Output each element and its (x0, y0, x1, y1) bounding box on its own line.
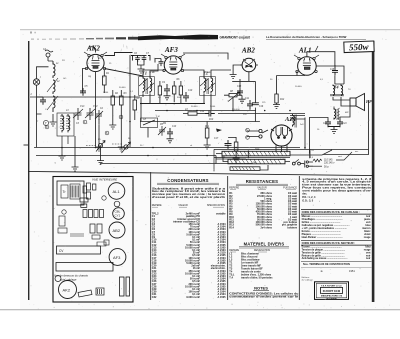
cap C14 (167, 128, 173, 138)
divider schematic/tables (28, 171, 373, 175)
component value labels (30, 48, 350, 159)
tube AF3 (161, 54, 185, 74)
resistances header (229, 186, 297, 189)
svg-text:1 M: 1 M (156, 116, 160, 118)
volume pot (141, 118, 158, 138)
ground R8 (239, 95, 246, 103)
wire right vertical (324, 101, 369, 155)
svg-text:C15: C15 (237, 86, 242, 88)
extra scan noise schematic band (31, 44, 363, 170)
header band ticks (30, 32, 84, 40)
resistor R6 (173, 81, 176, 102)
svg-text:CV2: CV2 (93, 106, 98, 108)
wire speaker return (290, 116, 305, 120)
svg-text:C18: C18 (330, 69, 335, 71)
circled reperes (83, 115, 249, 139)
550W box (344, 41, 374, 53)
chassis long rect L (56, 263, 113, 272)
svg-text:VALEUR: VALEUR (257, 186, 267, 189)
svg-text:cote' cablage: cote' cablage (60, 278, 77, 282)
svg-text:CODE DES COULEURS DU FIL DE CA: CODE DES COULEURS DU FIL DE CABLAGE : (302, 210, 360, 214)
switch contacts power (247, 129, 268, 138)
circled repere 6 (105, 131, 109, 135)
svg-text:5.000: 5.000 (210, 106, 216, 108)
BF transformer T3 (293, 114, 297, 128)
svg-text:PO: PO (62, 60, 65, 62)
svg-text:1951: 1951 (349, 269, 355, 273)
caps C20 C21 (325, 119, 343, 130)
tuning cap CV2 (85, 108, 95, 120)
wire: mid bus (140, 103, 205, 105)
svg-text:St ETIENNE: St ETIENNE (326, 297, 337, 300)
svg-text:Nos. TERMINAUX DE CONSTRUCT: Nos. TERMINAUX DE CONSTRUCTION (303, 262, 350, 266)
cap C16 coupling (252, 103, 259, 105)
resistor Rb under AF3 (179, 81, 182, 103)
power transformer HV winding (222, 151, 290, 156)
svg-text:RESISTANCES: RESISTANCES (246, 179, 278, 184)
svg-text:5.000: 5.000 (103, 92, 109, 94)
trimmer C7 top (138, 62, 145, 68)
ground AB2 left (230, 73, 237, 79)
resistor R3 (120, 90, 124, 113)
dropper resistor (313, 159, 322, 166)
scan speckle noise (23, 30, 391, 309)
svg-text:sont etablis pour les deux gam: sont etablis pour les deux gammes d'on- (302, 189, 371, 192)
right column paragraph (302, 178, 372, 203)
scanned page area (20, 30, 400, 310)
IF transformer T1 (139, 71, 155, 96)
chassis transfo block (57, 181, 84, 205)
svg-text:Substitution: Il peut etre uti: Substitution: Il peut etre utile il y a (152, 187, 226, 190)
condensateurs table rows (152, 213, 226, 299)
arrow mark ps (216, 129, 222, 133)
mains plug (304, 161, 313, 168)
switch S1 circle (33, 67, 48, 147)
svg-text:lieu de remplacer 10 mmF, les: lieu de remplacer 10 mmF, les valeurs la (152, 191, 226, 193)
svg-text:AZ1: AZ1 (284, 116, 297, 123)
power transformer LV winding (228, 159, 285, 164)
chassis tube CBL (113, 208, 125, 220)
field coil (334, 108, 340, 120)
wire T2 connections (183, 70, 232, 110)
template construction line (301, 260, 372, 262)
svg-text:CY1: CY1 (115, 214, 121, 218)
cap C17 tone (225, 140, 232, 149)
cap C8 top (105, 56, 151, 77)
cap C left frame (37, 97, 46, 105)
svg-text:50.000: 50.000 (119, 87, 126, 89)
scan bottom edge (0, 309, 400, 310)
ground R10 (204, 144, 211, 149)
resistor Ra under AF3 (158, 81, 161, 103)
mains switch (292, 159, 304, 165)
wire AL1 plate to T4 (307, 52, 344, 85)
svg-text:NOTES: NOTES (254, 285, 268, 290)
cap C9 under AF3 (164, 84, 170, 95)
svg-text:C13: C13 (172, 126, 177, 128)
wire AB2 detector (183, 53, 255, 122)
svg-text:C12: C12 (200, 111, 205, 113)
svg-text:2e MF: 2e MF (205, 72, 212, 74)
power transformer tert winding (230, 167, 260, 171)
wire AK2 left pin (83, 69, 87, 93)
svg-text:50.000: 50.000 (191, 106, 198, 108)
svg-text:AF3: AF3 (113, 255, 121, 260)
svg-text:AK2: AK2 (63, 287, 71, 292)
circled repere 9 (45, 125, 49, 129)
svg-text:AF3: AF3 (164, 46, 178, 54)
svg-text:R13: R13 (221, 157, 226, 159)
chassis elco bars (120, 277, 130, 296)
svg-text:A 1505: A 1505 (218, 296, 227, 299)
wire bottom right bus (216, 156, 252, 164)
wire: detector bus 2 (218, 113, 305, 115)
chassis gang condenser bar (57, 246, 101, 254)
ground osc (72, 136, 79, 171)
AZ1 pins (276, 145, 287, 152)
wire: AF bus (140, 121, 260, 123)
svg-text:REPERE: REPERE (229, 186, 239, 189)
tube AB2 (240, 58, 258, 72)
svg-text:C21: C21 (343, 123, 348, 125)
oscillator coil L3 (43, 113, 74, 136)
trimmer C13 (158, 126, 166, 136)
column divider 1 (149, 172, 152, 300)
svg-text:AL1: AL1 (298, 47, 311, 55)
svg-text:PUISSANCE: PUISSANCE (283, 186, 297, 189)
svg-text:VALEUR: VALEUR (178, 204, 188, 207)
tube AK2 (84, 52, 107, 72)
wire: top bus AK2-AF3 (105, 53, 133, 56)
wire field to caps (309, 106, 350, 119)
cap C18 (332, 67, 338, 75)
chassis trimmer group B (80, 186, 88, 207)
speaker HP (350, 94, 372, 111)
resistances table rows (229, 192, 297, 229)
resistor R2 (111, 90, 115, 113)
ground left bottom (59, 154, 66, 160)
wire T4 to speaker (333, 97, 350, 106)
ground mid1 (96, 119, 103, 151)
svg-text:9.000 m.mF: 9.000 m.mF (186, 296, 200, 299)
svg-text:AB2: AB2 (113, 228, 121, 233)
svg-text:C20: C20 (323, 123, 328, 125)
svg-text:REPERE: REPERE (152, 204, 162, 207)
wire T1 connections (143, 64, 164, 103)
chassis small rects right of transfo (87, 183, 96, 199)
wire x130 vertical (129, 55, 131, 147)
resistor R12 grid leak (275, 94, 278, 103)
frame tick left (24, 145, 30, 146)
code couleurs cablage header (301, 210, 372, 215)
chassis tube AB2 (109, 222, 125, 238)
svg-text:des.: des. (302, 192, 307, 195)
svg-text:SPECIFICATION: SPECIFICATION (207, 204, 225, 207)
code couleurs secteur rows (302, 246, 372, 261)
frame left border (28, 41, 29, 300)
wave switch SW1 (96, 141, 105, 161)
extra value labels (37, 58, 358, 164)
chassis trimmer group A (83, 210, 104, 218)
svg-text:C17: C17 (214, 138, 219, 140)
chassis small circle b (55, 276, 61, 282)
trimmer C2 (95, 110, 103, 120)
svg-text:AB2: AB2 (241, 47, 255, 55)
wire: bottom bus 1 (34, 147, 300, 149)
wire: detector bus (155, 110, 256, 112)
wire double vertical ps (305, 118, 310, 154)
svg-text:T.S.F. R.FORT et Cie: T.S.F. R.FORT et Cie (321, 284, 343, 287)
svg-text:R.FORT 1040: R.FORT 1040 (323, 289, 341, 293)
resistor R7 hor (183, 112, 205, 115)
svg-text:sect: sect (338, 155, 342, 158)
chassis tube AF3 (109, 249, 126, 266)
notes bold lines (229, 292, 299, 298)
condensateurs table header (152, 204, 225, 207)
column divider 3 (298, 176, 301, 300)
chassis small circle (114, 201, 120, 207)
wire transfo right links (290, 149, 369, 160)
wire LV out (216, 154, 290, 171)
wire AK2 down (95, 72, 97, 147)
svg-text:10.000: 10.000 (295, 86, 302, 88)
svg-text:G.O.: 3, 5: G.O.: 3, 5 (302, 199, 314, 202)
header black bar (138, 35, 218, 41)
editions small text (302, 276, 314, 282)
svg-text:CV1: CV1 (80, 106, 85, 108)
cap C5 (80, 88, 86, 96)
coil L1 antenna (47, 61, 58, 112)
resistor R13 tone (228, 137, 238, 158)
wire antenna top (90, 47, 96, 53)
cap C6 top (131, 56, 147, 62)
column divider 2 (226, 176, 229, 300)
svg-text:montee par les memes en cote ;: montee par les memes en cote ; la tensio… (152, 193, 226, 196)
svg-text:R14: R14 (229, 226, 234, 229)
code couleurs secteur header (301, 241, 372, 245)
wire: bus low partial (100, 163, 216, 165)
svg-text:R10: R10 (209, 119, 214, 121)
wire osc coil to ground (62, 136, 68, 154)
IF transformer T2 (200, 71, 216, 96)
ground C9 (164, 95, 171, 100)
output transformer T4 (330, 85, 344, 96)
transformer frame sides (248, 150, 309, 158)
svg-text:AL1: AL1 (113, 189, 121, 194)
svg-text:550w: 550w (349, 42, 370, 53)
scan top edge (20, 29, 400, 30)
chassis tube AL1 (108, 183, 125, 200)
chassis layout box (53, 177, 133, 303)
svg-text:VUE INTERIEURE: VUE INTERIEURE (92, 178, 118, 182)
svg-text:commutateur d'ondes portent: commutateur d'ondes portent sur le (229, 296, 299, 299)
svg-text:1e MF: 1e MF (149, 72, 156, 74)
svg-text:La Documentation du Radio-Elec: La Documentation du Radio-Electricien - … (266, 35, 347, 39)
materiel divers header (229, 249, 270, 252)
svg-text:R12: R12 (280, 99, 285, 101)
condensateurs intro paragraph (152, 187, 226, 199)
wire: grid bus left (30, 96, 140, 98)
ground C20 (331, 130, 338, 134)
svg-text:C32: C32 (152, 296, 157, 299)
svg-text:Editions: Editions (302, 276, 311, 279)
tuning cap CV1 (73, 108, 83, 120)
svg-text:220 245 v: 220 245 v (324, 162, 335, 165)
chassis tube AK2 (59, 281, 77, 299)
ground top cap (138, 68, 145, 73)
svg-text:2x4 ohms: 2x4 ohms (260, 226, 272, 229)
chassis misc small (58, 196, 109, 246)
ground C14 (167, 138, 174, 143)
ground mid2 (109, 113, 116, 129)
svg-text:noir: noir (366, 257, 371, 260)
resistor R10 ps (205, 122, 209, 145)
svg-text:MATERIEL DIVERS: MATERIEL DIVERS (244, 241, 285, 246)
svg-text:C10: C10 (188, 90, 193, 92)
stamp box (315, 282, 349, 300)
frame right border (372, 41, 375, 302)
switch link dashed (86, 144, 122, 146)
cap pair left of AF3 (155, 59, 164, 67)
cap C10 (183, 92, 189, 102)
svg-text:2x350: 2x350 (280, 159, 287, 161)
svg-text:50 p: 50 p (324, 166, 329, 169)
ground C17 (233, 157, 240, 163)
svg-text:d'essai pour P et M, et de spe: d'essai pour P et M, et de spe'cir plus% (152, 196, 225, 199)
cap C11 (247, 100, 253, 110)
wave switch SW2 (122, 142, 131, 153)
svg-text:Anti-fading ou masse .........: Anti-fading ou masse ...................… (302, 257, 348, 260)
cap C15 det (237, 88, 243, 96)
svg-text:C16: C16 (259, 106, 264, 108)
svg-text:exc: exc (355, 151, 358, 153)
chassis MF can (90, 224, 102, 233)
wire x141 vertical (140, 97, 142, 121)
wire AL1 grid left (277, 72, 306, 95)
svg-text:GRAMMONT exquisit: GRAMMONT exquisit (220, 35, 251, 39)
tube AZ1 (271, 125, 292, 146)
svg-text:du Cablage: du Cablage (302, 280, 314, 282)
svg-text:CONDENSATEURS: CONDENSATEURS (167, 178, 208, 183)
resistor R1 (103, 70, 107, 93)
resistor R4 (133, 95, 137, 120)
transformer frame lines (214, 149, 310, 171)
chassis osc pad (78, 288, 104, 297)
wire: bottom bus 2 (36, 155, 216, 157)
resistor R8 (224, 92, 242, 111)
svg-text:CA: CA (43, 48, 47, 51)
svg-text:R12: R12 (255, 149, 260, 151)
ground mid3 (118, 113, 125, 151)
ground SW1 (97, 161, 104, 165)
tube AL1 (294, 46, 319, 75)
ground R12 (273, 103, 280, 109)
svg-text:variable: variable (216, 213, 226, 216)
svg-text:TA: TA (311, 149, 314, 152)
svg-text:CODE DES COULEURS DU FIL SECT: CODE DES COULEURS DU FIL SECTEUR : (302, 241, 356, 245)
junction dots (61, 65, 336, 156)
cap C12 (205, 111, 215, 117)
svg-text:transfo d'alim. 50 periodes: transfo d'alim. 50 periodes (241, 277, 273, 280)
svg-text:GO: GO (63, 78, 67, 80)
svg-text:Haut-Parleur .................: Haut-Parleur ...........................… (302, 236, 343, 239)
svg-text:T A: T A (229, 277, 233, 280)
svg-text:rouge: rouge (364, 236, 371, 239)
svg-text:bobinee: bobinee (287, 226, 297, 229)
svg-text:AK2: AK2 (86, 45, 100, 53)
antenna terminal (45, 50, 53, 61)
code couleurs cablage rows (302, 215, 372, 239)
ground under L1 (50, 114, 57, 126)
materiel divers rows (229, 252, 273, 279)
